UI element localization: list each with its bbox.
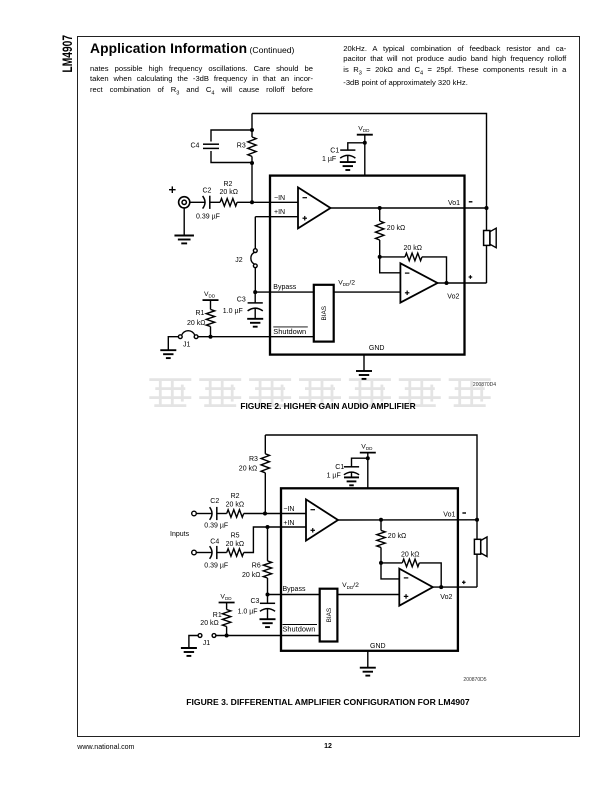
ground GND pin <box>356 371 372 379</box>
wire node E to op-amp 2 inverting input <box>380 257 401 273</box>
op-amp U1B fig3 <box>399 569 433 606</box>
wire R5 to +IN pin <box>244 527 306 553</box>
resistor R3 <box>237 137 256 156</box>
ground J1 fig3 <box>181 648 197 656</box>
wire 20k to Vo2 node fig3 <box>419 563 441 587</box>
wire shutdown from J1/R1 to BIAS <box>198 336 314 338</box>
wire feedback top rail fig3 <box>265 435 477 520</box>
wire R6 to bypass node <box>267 578 269 595</box>
wire J1 to ground <box>168 337 178 350</box>
label speaker minus terminal <box>469 201 473 203</box>
wire GND pin <box>363 355 365 371</box>
label speaker plus terminal fig3 <box>462 581 466 585</box>
wire R to node E <box>379 240 381 257</box>
wire VDD to IC fig3 <box>367 453 369 489</box>
svg-text:C2: C2 <box>210 498 219 505</box>
op-amp U1A <box>298 187 331 228</box>
node Vo1 speaker junction fig3 <box>475 518 479 522</box>
wire node E to op-amp 2 inverting input fig3 <box>381 563 399 579</box>
svg-text:20 kΩ: 20 kΩ <box>200 620 218 627</box>
svg-text:Vo2: Vo2 <box>440 594 452 601</box>
svg-text:Vo1: Vo1 <box>443 511 455 518</box>
svg-text:Shutdown: Shutdown <box>283 625 316 634</box>
input jack J? with plus marking <box>169 186 190 208</box>
node E junction fig3 <box>379 561 383 565</box>
svg-text:−IN: −IN <box>283 506 294 513</box>
svg-text:20 kΩ: 20 kΩ <box>239 465 257 472</box>
node R1/shutdown junction <box>209 335 213 339</box>
svg-text:C4: C4 <box>210 539 219 546</box>
wire +IN pin <box>255 216 298 218</box>
svg-text:0.39 µF: 0.39 µF <box>204 562 228 569</box>
label speaker plus terminal <box>469 275 473 279</box>
block BIAS <box>314 285 334 342</box>
ground C1 <box>340 162 356 170</box>
wire R1 to node <box>210 327 212 337</box>
input terminal 1 <box>192 511 197 516</box>
input terminal 2 <box>192 550 197 555</box>
ground GND pin fig3 <box>360 668 376 676</box>
wire 20k to Vo2 node <box>422 257 447 283</box>
capacitor C3 1.0uF <box>223 292 263 319</box>
svg-text:1.0 µF: 1.0 µF <box>238 609 258 616</box>
wire node E to 20k horizontal fig3 <box>381 562 402 564</box>
svg-text:J1: J1 <box>203 640 211 647</box>
wire speaker top feed fig3 <box>476 520 478 540</box>
svg-text:20 kΩ: 20 kΩ <box>388 533 406 540</box>
node Vo2 junction fig3 <box>439 585 443 589</box>
wire R3 bottom to -IN node <box>251 156 253 202</box>
capacitor C1 1uF fig3 <box>327 458 368 479</box>
node E junction <box>378 255 382 259</box>
svg-text:VDD: VDD <box>220 593 232 601</box>
wire J2 to bypass node <box>254 268 256 292</box>
speaker LS <box>484 228 497 248</box>
node junction R3/C4 bottom <box>250 161 254 165</box>
power VDD top fig3 <box>360 444 376 453</box>
capacitor C4 0.39uF fig3 <box>204 539 228 570</box>
ground J1 <box>160 350 176 358</box>
resistor R3 20k fig3 <box>239 454 270 473</box>
wire +IN to jumper J2 <box>254 217 256 249</box>
svg-text:VDD: VDD <box>361 444 373 452</box>
resistor R2 20k <box>220 181 238 206</box>
power VDD top <box>357 126 373 135</box>
capacitor C3 1.0uF fig3 <box>238 595 276 620</box>
node VDD/C1 junction fig3 <box>366 456 370 460</box>
svg-text:R3: R3 <box>249 456 258 463</box>
speaker LS fig3 <box>474 537 487 557</box>
IC outline LM4907 <box>270 176 465 355</box>
wire Vo1 output fig3 <box>338 519 477 521</box>
resistor R1 20k <box>187 309 215 326</box>
resistor R6 20k <box>242 561 272 579</box>
op-amp U1B <box>400 263 437 302</box>
wire R2 to -IN pin fig3 <box>244 513 306 515</box>
wire C2 to R2 fig3 <box>217 513 227 515</box>
svg-text:BIAS: BIAS <box>326 608 333 623</box>
capacitor C1 1uF <box>322 143 365 163</box>
capacitor C2 0.39uF <box>196 188 220 221</box>
wire 20k to node E fig3 <box>380 547 382 563</box>
svg-text:R5: R5 <box>231 533 240 540</box>
node -IN junction fig3 <box>263 512 267 516</box>
svg-text:R1: R1 <box>213 612 222 619</box>
wire VDD/2 from BIAS to op-amp 2 <box>334 291 401 293</box>
jumper J1 open fig3 <box>198 634 216 648</box>
wire R3 branch vertical <box>251 114 253 138</box>
wire speaker top feed <box>486 208 488 231</box>
resistor 20k feedback horizontal fig3 <box>401 551 419 566</box>
wire R3 top stub fig3 <box>264 435 266 454</box>
svg-text:VDD/2: VDD/2 <box>342 582 359 590</box>
capacitor C4 <box>191 130 253 163</box>
svg-text:Inputs: Inputs <box>170 531 190 538</box>
pin label Shutdown with overline fig3 <box>283 625 318 634</box>
svg-text:20 kΩ: 20 kΩ <box>242 572 260 579</box>
wire C2 to R2 <box>210 201 220 203</box>
svg-text:R2: R2 <box>231 493 240 500</box>
wire bypass pin fig3 <box>268 594 320 596</box>
svg-text:R6: R6 <box>252 563 261 570</box>
wire node E to 20k horizontal <box>380 256 405 258</box>
node R1/shutdown junction fig3 <box>225 634 229 638</box>
svg-text:+IN: +IN <box>283 520 294 527</box>
capacitor C2 0.39uF fig3 <box>204 498 228 529</box>
node Vo1 feedback junction fig3 <box>379 518 383 522</box>
wire VDD to R1 <box>210 300 212 309</box>
jumper J2 <box>235 249 257 268</box>
wire jack to ground <box>183 208 185 235</box>
node bypass junction fig3 <box>266 593 270 597</box>
resistor R5 20k <box>226 533 244 557</box>
power VDD for R1 fig3 <box>219 593 235 602</box>
svg-text:Bypass: Bypass <box>283 586 306 593</box>
block BIAS fig3 <box>320 589 338 642</box>
node Vo2 junction <box>445 281 449 285</box>
wire R1 to node fig3 <box>226 627 228 636</box>
wire VDD to R1 fig3 <box>226 603 228 610</box>
wire bypass pin to BIAS <box>255 291 314 293</box>
resistor R1 20k fig3 <box>200 610 231 628</box>
jumper J1 <box>178 331 198 349</box>
wire +IN node to R6 <box>267 527 269 561</box>
wire input2 to C4 <box>196 552 212 554</box>
wire VDD/2 from BIAS fig3 <box>337 594 399 596</box>
wire shutdown from J1/R1 to BIAS fig3 <box>216 635 320 637</box>
wire Vo2 output fig3 <box>433 586 477 588</box>
node Vo1 feedback junction <box>378 206 382 210</box>
node VDD/C1 junction <box>363 141 367 145</box>
node Vo1 speaker junction <box>485 206 489 210</box>
svg-text:1 µF: 1 µF <box>327 473 341 480</box>
ground C3 fig3 <box>260 619 276 627</box>
wire GND pin fig3 <box>367 651 369 668</box>
svg-text:C1: C1 <box>335 464 344 471</box>
node -IN junction <box>250 200 254 204</box>
op-amp U1A fig3 <box>306 499 338 540</box>
wire input1 to C2 <box>196 513 212 515</box>
svg-text:20 kΩ: 20 kΩ <box>226 501 244 508</box>
power VDD for R1 <box>203 291 219 300</box>
svg-text:GND: GND <box>370 643 386 650</box>
wire C4 to R5 <box>217 552 227 554</box>
resistor 20k feedback horizontal <box>404 245 423 261</box>
svg-text:C3: C3 <box>251 598 260 605</box>
wire VDD to IC <box>364 135 366 176</box>
wire Vo2 output <box>438 282 487 284</box>
pin label Shutdown with overline <box>273 327 308 336</box>
ground C1 fig3 <box>344 477 359 485</box>
wire J1 to ground fig3 <box>189 636 198 648</box>
wire speaker bottom feed <box>486 245 488 283</box>
wire Vo1 output <box>331 207 487 209</box>
resistor 20k feedback vertical <box>376 221 406 240</box>
node junction R3/C4 top <box>250 128 254 132</box>
ground jack <box>174 236 194 244</box>
wire R2 to -IN node <box>237 201 252 203</box>
node +IN junction fig3 <box>266 525 270 529</box>
svg-text:20 kΩ: 20 kΩ <box>401 551 419 558</box>
label speaker minus terminal fig3 <box>462 512 466 514</box>
ground C3 <box>247 319 263 327</box>
resistor 20k feedback vertical fig3 <box>377 530 406 547</box>
svg-text:20 kΩ: 20 kΩ <box>226 541 244 548</box>
resistor R2 20k fig3 <box>226 493 244 517</box>
wire -IN pin <box>252 201 298 203</box>
wire Vo1 node to R feedback <box>379 208 381 221</box>
wire feedback top rail from R3 top to Vo1 node <box>252 114 487 209</box>
svg-text:0.39 µF: 0.39 µF <box>204 523 228 530</box>
wire speaker bottom feed fig3 <box>476 554 478 587</box>
node bypass junction <box>253 290 257 294</box>
wire R3 to -IN node fig3 <box>264 473 266 514</box>
IC outline LM4907 fig3 <box>281 488 458 651</box>
wire Vo1 to 20k vertical <box>380 520 382 531</box>
wire jack to C2 <box>190 201 205 203</box>
